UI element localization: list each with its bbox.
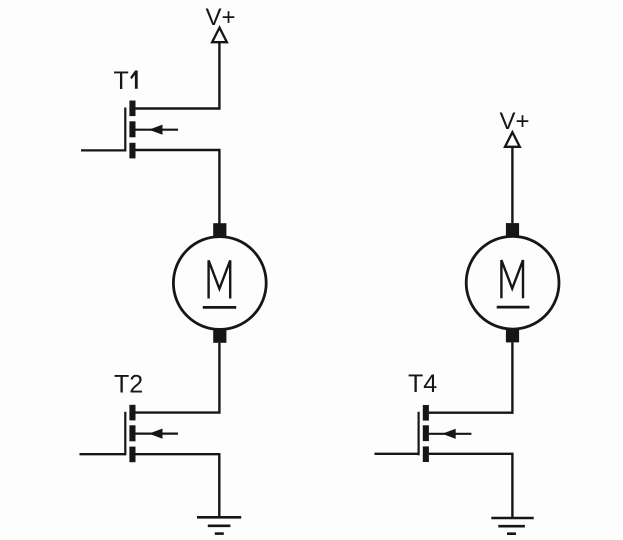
transistor T1 (125, 101, 178, 159)
wire M2 to T4 drain (429, 342, 513, 412)
ground (left) (197, 517, 241, 533)
wire M1 to T2 drain (136, 343, 220, 413)
motor M1 (173, 223, 266, 343)
wire T2 gate (80, 453, 126, 455)
transistor T4 (419, 405, 472, 462)
motor M2 (466, 223, 559, 342)
wire T4 gate (375, 453, 420, 455)
svg-text:T2: T2 (114, 371, 143, 399)
ground (right) (491, 518, 533, 534)
label T1 (114, 67, 138, 95)
transistor T2 (125, 405, 178, 462)
svg-text:T4: T4 (408, 370, 437, 398)
wire T4 source to ground (429, 454, 513, 517)
wire T1 gate (81, 149, 126, 151)
wire V+ to motor M2 (511, 147, 513, 224)
svg-text:V+: V+ (206, 4, 236, 31)
power V+ arrow symbol (right) (505, 132, 520, 147)
wire V+ to T1 drain (136, 42, 220, 108)
wire T1 source to motor M1 (136, 150, 220, 224)
wire T2 source to ground (136, 454, 220, 516)
svg-text:T: T (114, 67, 129, 95)
svg-text:V+: V+ (500, 108, 530, 135)
power V+ arrow symbol (left) (212, 28, 227, 43)
